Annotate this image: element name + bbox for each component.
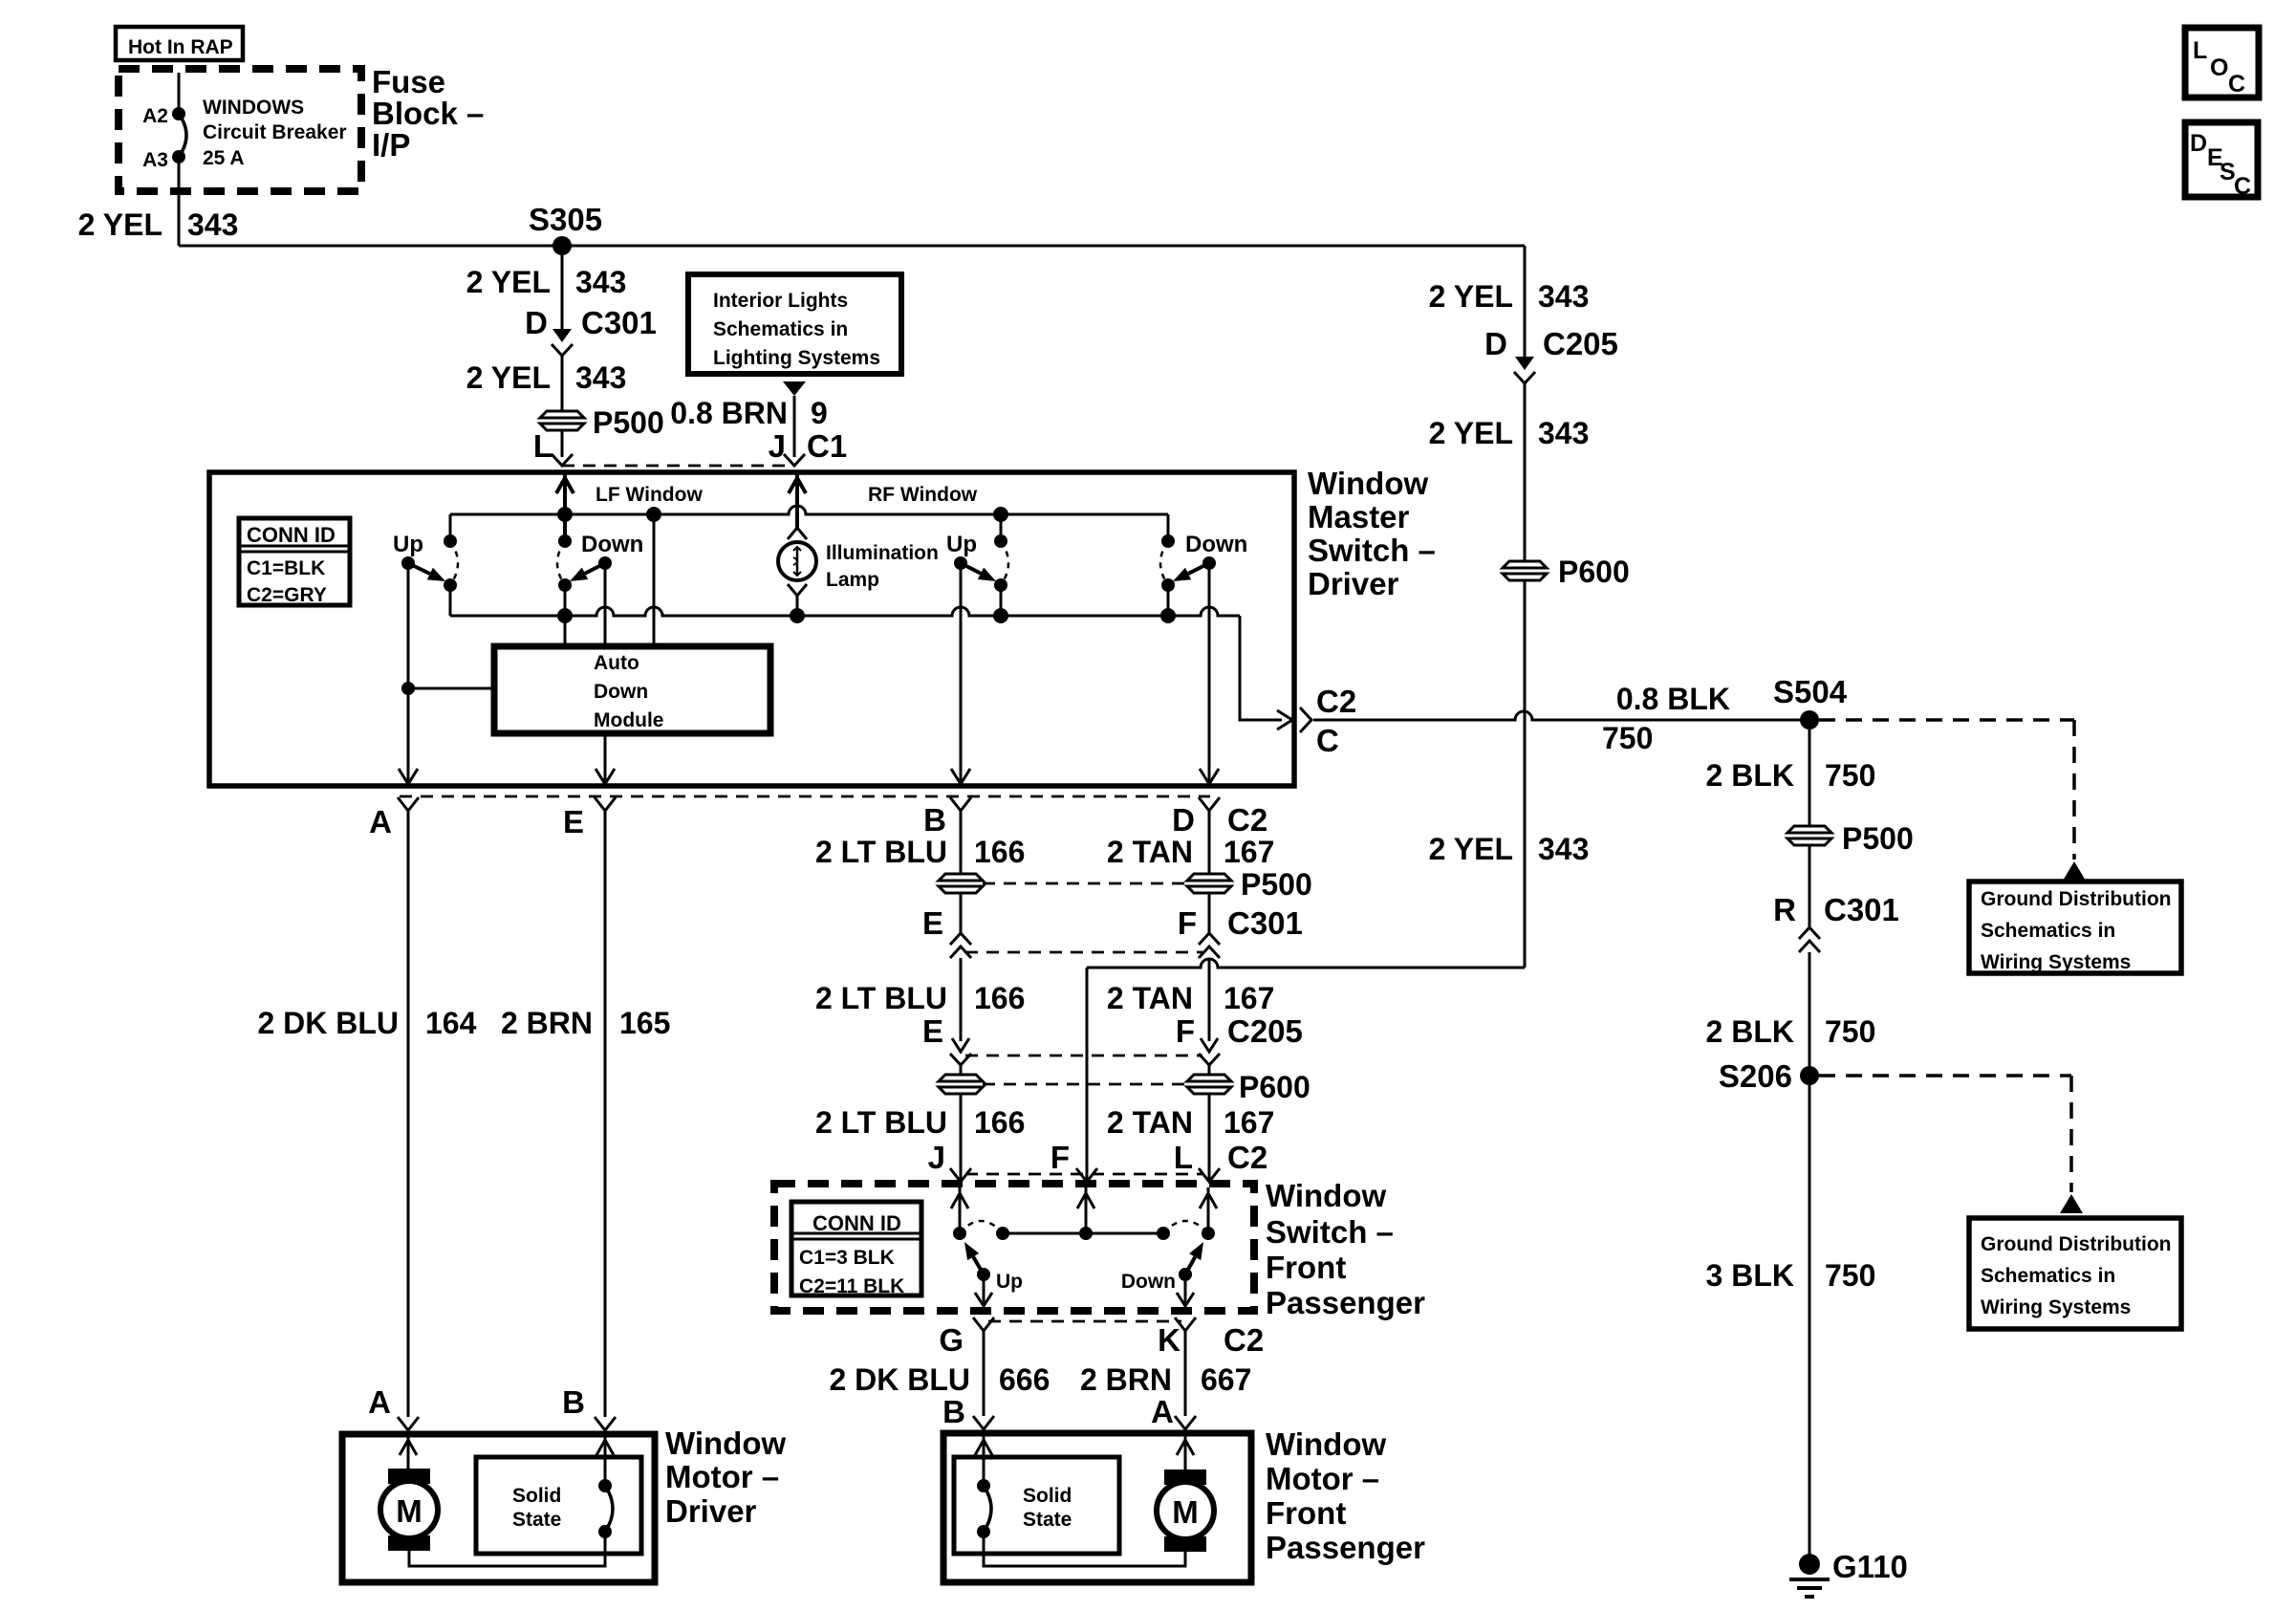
svg-text:2 BRN: 2 BRN <box>501 1006 593 1040</box>
svg-text:Down: Down <box>1121 1271 1176 1293</box>
svg-text:25 A: 25 A <box>203 147 245 169</box>
svg-text:I/P: I/P <box>372 127 410 163</box>
svg-text:Window: Window <box>1266 1178 1386 1213</box>
svg-text:C301: C301 <box>1227 905 1303 941</box>
svg-text:343: 343 <box>575 265 626 299</box>
svg-text:Ground Distribution: Ground Distribution <box>1981 888 2171 910</box>
svg-text:WINDOWS: WINDOWS <box>203 97 304 119</box>
svg-text:D: D <box>1484 326 1507 361</box>
svg-text:C1: C1 <box>807 428 847 464</box>
svg-text:J: J <box>769 428 786 464</box>
svg-text:Schematics in: Schematics in <box>713 318 848 340</box>
svg-text:R: R <box>1773 892 1796 927</box>
svg-text:750: 750 <box>1825 1014 1875 1049</box>
svg-text:C2=11 BLK: C2=11 BLK <box>799 1275 904 1297</box>
svg-text:Fuse: Fuse <box>372 64 445 99</box>
svg-text:P500: P500 <box>593 405 664 440</box>
svg-text:A: A <box>368 1384 391 1420</box>
svg-text:2 DK BLU: 2 DK BLU <box>257 1006 399 1040</box>
svg-text:P500: P500 <box>1842 821 1914 856</box>
svg-text:E: E <box>922 905 943 941</box>
svg-text:164: 164 <box>425 1006 477 1040</box>
svg-text:E: E <box>563 804 584 839</box>
svg-text:Switch –: Switch – <box>1308 533 1436 568</box>
svg-text:Block –: Block – <box>372 96 484 131</box>
svg-text:C2=GRY: C2=GRY <box>247 584 327 606</box>
svg-text:2 YEL: 2 YEL <box>1429 416 1513 450</box>
svg-text:LF Window: LF Window <box>596 484 703 506</box>
svg-text:CONN ID: CONN ID <box>247 523 336 547</box>
svg-text:167: 167 <box>1224 981 1274 1015</box>
svg-text:G110: G110 <box>1832 1549 1908 1584</box>
svg-text:Circuit Breaker: Circuit Breaker <box>203 121 347 143</box>
svg-text:M: M <box>1172 1494 1199 1530</box>
svg-text:Schematics in: Schematics in <box>1981 920 2115 942</box>
svg-text:Down: Down <box>594 681 648 703</box>
svg-text:Wiring Systems: Wiring Systems <box>1981 951 2131 973</box>
svg-text:C205: C205 <box>1227 1013 1303 1049</box>
svg-text:K: K <box>1158 1322 1180 1358</box>
svg-text:G: G <box>939 1322 964 1358</box>
svg-text:2 YEL: 2 YEL <box>466 360 551 395</box>
svg-text:A3: A3 <box>142 149 168 171</box>
svg-text:L: L <box>2193 37 2207 64</box>
svg-text:2 DK BLU: 2 DK BLU <box>829 1362 970 1397</box>
svg-text:B: B <box>923 802 946 838</box>
svg-text:State: State <box>1023 1509 1072 1531</box>
svg-text:Wiring Systems: Wiring Systems <box>1981 1296 2131 1318</box>
svg-text:Front: Front <box>1266 1495 1346 1531</box>
svg-text:2 BRN: 2 BRN <box>1080 1362 1172 1397</box>
svg-text:C2: C2 <box>1227 802 1267 838</box>
svg-text:343: 343 <box>1538 832 1589 866</box>
svg-text:B: B <box>942 1394 965 1429</box>
svg-text:Solid: Solid <box>1023 1485 1072 1507</box>
svg-text:0.8 BRN: 0.8 BRN <box>670 396 788 430</box>
svg-text:J: J <box>928 1140 945 1175</box>
svg-text:2 YEL: 2 YEL <box>1429 279 1513 314</box>
svg-text:RF Window: RF Window <box>868 484 978 506</box>
svg-text:Illumination: Illumination <box>826 542 939 564</box>
svg-text:167: 167 <box>1224 835 1274 869</box>
svg-text:C: C <box>2234 173 2251 200</box>
svg-text:343: 343 <box>1538 279 1589 314</box>
svg-text:Up: Up <box>996 1271 1023 1293</box>
svg-text:C: C <box>2228 71 2245 98</box>
svg-text:F: F <box>1051 1140 1070 1175</box>
svg-text:A: A <box>1151 1394 1174 1429</box>
svg-text:Switch –: Switch – <box>1266 1214 1394 1250</box>
svg-text:S206: S206 <box>1719 1058 1792 1094</box>
svg-text:2 LT BLU: 2 LT BLU <box>815 1105 947 1140</box>
svg-text:2 TAN: 2 TAN <box>1107 981 1193 1015</box>
svg-text:P600: P600 <box>1239 1070 1310 1104</box>
svg-text:C1=3 BLK: C1=3 BLK <box>799 1247 895 1269</box>
svg-text:166: 166 <box>974 981 1025 1015</box>
svg-text:S305: S305 <box>529 202 602 237</box>
svg-text:167: 167 <box>1224 1105 1274 1140</box>
svg-text:P500: P500 <box>1241 867 1312 902</box>
svg-text:Window: Window <box>1308 466 1428 501</box>
svg-text:Motor –: Motor – <box>665 1459 779 1494</box>
svg-text:D: D <box>1172 802 1195 838</box>
svg-text:Hot In RAP: Hot In RAP <box>128 36 233 58</box>
svg-text:Lighting Systems: Lighting Systems <box>713 347 880 369</box>
svg-text:C2: C2 <box>1316 684 1356 719</box>
svg-text:750: 750 <box>1825 758 1875 793</box>
svg-text:Down: Down <box>581 532 643 557</box>
svg-text:Master: Master <box>1308 499 1410 534</box>
svg-text:Window: Window <box>665 1426 786 1461</box>
svg-text:9: 9 <box>811 396 828 430</box>
svg-text:343: 343 <box>187 207 238 242</box>
svg-text:Driver: Driver <box>1308 566 1399 601</box>
svg-text:Down: Down <box>1185 532 1247 557</box>
svg-text:C205: C205 <box>1543 326 1618 361</box>
svg-text:S504: S504 <box>1773 674 1848 709</box>
svg-text:3 BLK: 3 BLK <box>1706 1258 1794 1293</box>
svg-text:F: F <box>1178 905 1197 941</box>
svg-text:Solid: Solid <box>512 1485 561 1507</box>
svg-text:B: B <box>562 1384 585 1420</box>
svg-text:Auto: Auto <box>594 652 639 674</box>
svg-text:2 YEL: 2 YEL <box>1429 832 1513 866</box>
svg-text:166: 166 <box>974 1105 1025 1140</box>
svg-text:C301: C301 <box>1824 892 1899 927</box>
svg-text:State: State <box>512 1509 561 1531</box>
svg-text:C1=BLK: C1=BLK <box>247 557 325 579</box>
svg-text:Interior Lights: Interior Lights <box>713 290 848 312</box>
svg-text:CONN ID: CONN ID <box>812 1211 901 1235</box>
svg-text:667: 667 <box>1201 1362 1251 1397</box>
svg-text:Passenger: Passenger <box>1266 1530 1425 1565</box>
svg-text:Lamp: Lamp <box>826 569 879 591</box>
svg-text:2 BLK: 2 BLK <box>1706 1014 1794 1049</box>
svg-text:L: L <box>1174 1140 1193 1175</box>
svg-text:C2: C2 <box>1227 1140 1267 1175</box>
svg-text:Ground Distribution: Ground Distribution <box>1981 1233 2171 1255</box>
svg-text:Driver: Driver <box>665 1493 757 1529</box>
svg-text:2 TAN: 2 TAN <box>1107 835 1193 869</box>
svg-text:2 LT BLU: 2 LT BLU <box>815 981 947 1015</box>
svg-text:O: O <box>2210 54 2228 81</box>
svg-text:A: A <box>369 804 392 839</box>
svg-text:Window: Window <box>1266 1426 1386 1462</box>
svg-text:M: M <box>396 1493 422 1529</box>
svg-text:C: C <box>1316 723 1339 758</box>
svg-text:Schematics in: Schematics in <box>1981 1265 2115 1287</box>
svg-text:Up: Up <box>946 532 977 557</box>
svg-text:0.8 BLK: 0.8 BLK <box>1616 682 1730 716</box>
svg-text:Passenger: Passenger <box>1266 1285 1425 1320</box>
svg-text:750: 750 <box>1602 721 1653 755</box>
svg-text:E: E <box>922 1013 943 1049</box>
svg-text:Up: Up <box>393 532 423 557</box>
svg-text:666: 666 <box>999 1362 1050 1397</box>
svg-text:A2: A2 <box>142 105 168 127</box>
svg-text:2 BLK: 2 BLK <box>1706 758 1794 793</box>
svg-text:343: 343 <box>1538 416 1589 450</box>
svg-text:C2: C2 <box>1224 1322 1264 1358</box>
svg-text:D: D <box>525 305 548 340</box>
svg-text:165: 165 <box>619 1006 670 1040</box>
svg-text:2 TAN: 2 TAN <box>1107 1105 1193 1140</box>
svg-text:D: D <box>2190 130 2207 157</box>
svg-text:L: L <box>533 428 552 464</box>
svg-text:Front: Front <box>1266 1250 1346 1285</box>
svg-text:343: 343 <box>575 360 626 395</box>
svg-text:750: 750 <box>1825 1258 1875 1293</box>
svg-text:P600: P600 <box>1558 555 1630 589</box>
svg-text:2 LT BLU: 2 LT BLU <box>815 835 947 869</box>
svg-text:Motor –: Motor – <box>1266 1461 1379 1496</box>
svg-text:C301: C301 <box>581 305 657 340</box>
svg-text:F: F <box>1176 1013 1195 1049</box>
svg-text:Module: Module <box>594 709 664 731</box>
svg-text:166: 166 <box>974 835 1025 869</box>
svg-text:2 YEL: 2 YEL <box>78 207 162 242</box>
svg-text:2 YEL: 2 YEL <box>466 265 551 299</box>
